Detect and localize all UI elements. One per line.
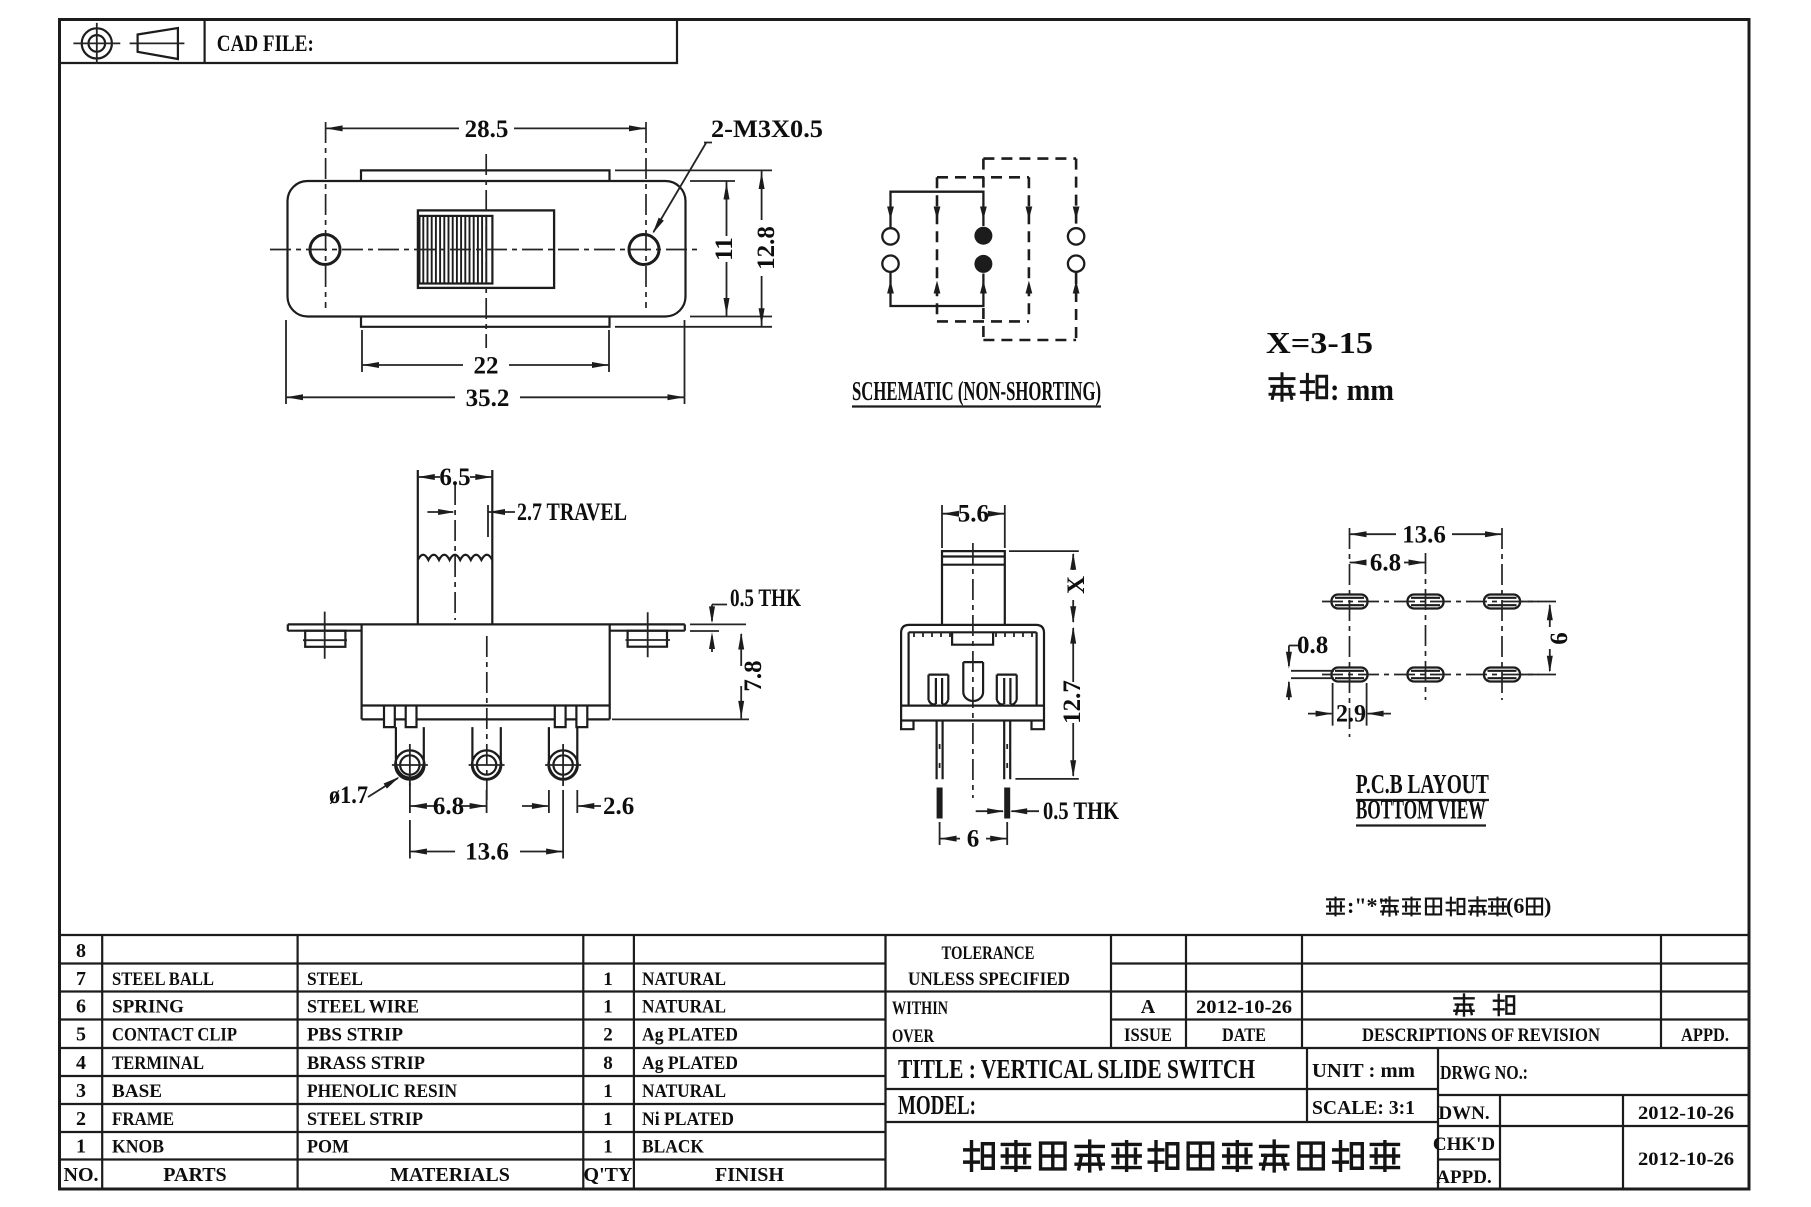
svg-text:OVER: OVER <box>892 1026 934 1047</box>
svg-text:NO.: NO. <box>64 1164 99 1186</box>
svg-text:6.5: 6.5 <box>439 464 470 491</box>
svg-text:WITHIN: WITHIN <box>892 998 948 1019</box>
svg-text:APPD.: APPD. <box>1436 1167 1491 1188</box>
svg-text:TITLE : VERTICAL SLIDE SWITC: TITLE : VERTICAL SLIDE SWITCH <box>898 1054 1255 1084</box>
svg-text:2.9: 2.9 <box>1336 701 1366 728</box>
svg-text:3: 3 <box>76 1080 86 1102</box>
svg-text:22: 22 <box>474 353 499 380</box>
svg-text:: mm: : mm <box>1330 372 1394 407</box>
svg-text:7: 7 <box>76 968 86 990</box>
svg-text:1: 1 <box>76 1136 86 1158</box>
svg-text:6: 6 <box>76 996 86 1018</box>
svg-text:8: 8 <box>603 1053 613 1074</box>
svg-text:SPRING: SPRING <box>112 997 184 1018</box>
svg-text:Ni PLATED: Ni PLATED <box>642 1109 734 1130</box>
svg-text:FRAME: FRAME <box>112 1109 174 1130</box>
svg-text:BOTTOM VIEW: BOTTOM VIEW <box>1356 795 1486 825</box>
svg-text:TERMINAL: TERMINAL <box>112 1053 204 1074</box>
svg-text:UNIT : mm: UNIT : mm <box>1312 1060 1415 1082</box>
svg-text:MODEL:: MODEL: <box>898 1090 976 1120</box>
svg-text:28.5: 28.5 <box>465 116 509 143</box>
svg-text:X=3-15: X=3-15 <box>1266 325 1373 360</box>
svg-text:0.8: 0.8 <box>1297 632 1328 659</box>
svg-text:Q'TY: Q'TY <box>584 1164 633 1186</box>
svg-text:SCALE: 3:1: SCALE: 3:1 <box>1312 1097 1415 1119</box>
svg-text:13.6: 13.6 <box>465 839 509 866</box>
svg-text:2012-10-26: 2012-10-26 <box>1196 997 1292 1018</box>
svg-text:BRASS STRIP: BRASS STRIP <box>307 1053 425 1074</box>
svg-text:0.5 THK: 0.5 THK <box>1043 798 1119 825</box>
svg-text:2: 2 <box>603 1025 613 1046</box>
svg-text:6: 6 <box>967 826 980 853</box>
svg-text:NATURAL: NATURAL <box>642 969 726 990</box>
svg-text:STEEL STRIP: STEEL STRIP <box>307 1109 423 1130</box>
svg-text:): ) <box>1544 893 1551 918</box>
svg-text:DATE: DATE <box>1222 1025 1266 1046</box>
svg-text:8: 8 <box>76 940 86 962</box>
svg-text:4: 4 <box>76 1052 86 1074</box>
svg-text:DWN.: DWN. <box>1438 1103 1489 1124</box>
svg-text:0.5 THK: 0.5 THK <box>730 585 801 612</box>
svg-text:1: 1 <box>603 1081 613 1102</box>
svg-text:6.8: 6.8 <box>433 793 464 820</box>
svg-text:11: 11 <box>711 237 738 261</box>
svg-text:12.7: 12.7 <box>1059 680 1086 724</box>
svg-text:DESCRIPTIONS OF REVISION: DESCRIPTIONS OF REVISION <box>1362 1025 1600 1046</box>
svg-text:2012-10-26: 2012-10-26 <box>1638 1103 1734 1124</box>
svg-text:STEEL BALL: STEEL BALL <box>112 969 214 990</box>
svg-text:APPD.: APPD. <box>1681 1025 1729 1046</box>
svg-text:NATURAL: NATURAL <box>642 1081 726 1102</box>
svg-text:PARTS: PARTS <box>163 1164 226 1186</box>
svg-text:5: 5 <box>76 1024 86 1046</box>
svg-text:A: A <box>1141 996 1156 1018</box>
svg-text:2012-10-26: 2012-10-26 <box>1638 1149 1734 1170</box>
svg-text:Ag PLATED: Ag PLATED <box>642 1053 738 1074</box>
svg-text:TOLERANCE: TOLERANCE <box>942 943 1035 964</box>
svg-text:1: 1 <box>603 997 613 1018</box>
svg-text:CONTACT CLIP: CONTACT CLIP <box>112 1025 237 1046</box>
svg-text:1: 1 <box>603 1109 613 1130</box>
svg-text:PBS STRIP: PBS STRIP <box>307 1025 403 1046</box>
svg-text:NATURAL: NATURAL <box>642 997 726 1018</box>
svg-text:STEEL: STEEL <box>307 969 363 990</box>
svg-text:2: 2 <box>76 1108 86 1130</box>
svg-text:Ag PLATED: Ag PLATED <box>642 1025 738 1046</box>
svg-text:PHENOLIC RESIN: PHENOLIC RESIN <box>307 1081 457 1102</box>
svg-text:CHK'D: CHK'D <box>1433 1134 1495 1155</box>
svg-text:(6: (6 <box>1506 893 1524 918</box>
svg-text:2.6: 2.6 <box>603 793 634 820</box>
svg-text:SCHEMATIC (NON-SHORTING): SCHEMATIC (NON-SHORTING) <box>852 376 1101 406</box>
svg-text:6: 6 <box>1546 632 1573 645</box>
svg-text:7.8: 7.8 <box>740 660 767 691</box>
svg-text:BASE: BASE <box>112 1081 162 1102</box>
svg-text:ø1.7: ø1.7 <box>329 782 368 809</box>
svg-text:2.7 TRAVEL: 2.7 TRAVEL <box>517 499 627 526</box>
svg-text:POM: POM <box>307 1137 349 1158</box>
svg-text:DRWG NO.:: DRWG NO.: <box>1440 1062 1528 1084</box>
svg-text:6.8: 6.8 <box>1370 550 1401 577</box>
svg-text:2-M3X0.5: 2-M3X0.5 <box>711 116 823 143</box>
svg-text:KNOB: KNOB <box>112 1137 164 1158</box>
svg-text:STEEL WIRE: STEEL WIRE <box>307 997 419 1018</box>
svg-text:FINISH: FINISH <box>715 1164 784 1186</box>
svg-text:13.6: 13.6 <box>1402 522 1446 549</box>
svg-text:12.8: 12.8 <box>753 226 780 270</box>
svg-text:UNLESS SPECIFIED: UNLESS SPECIFIED <box>908 969 1070 990</box>
svg-text:5.6: 5.6 <box>958 501 989 528</box>
svg-text:BLACK: BLACK <box>642 1137 704 1158</box>
svg-text:ISSUE: ISSUE <box>1124 1025 1172 1046</box>
svg-text:1: 1 <box>603 969 613 990</box>
svg-text:1: 1 <box>603 1137 613 1158</box>
svg-text:CAD FILE:: CAD FILE: <box>217 31 314 56</box>
svg-text:35.2: 35.2 <box>466 385 510 412</box>
svg-text:MATERIALS: MATERIALS <box>390 1164 510 1186</box>
svg-text:X: X <box>1063 576 1090 594</box>
